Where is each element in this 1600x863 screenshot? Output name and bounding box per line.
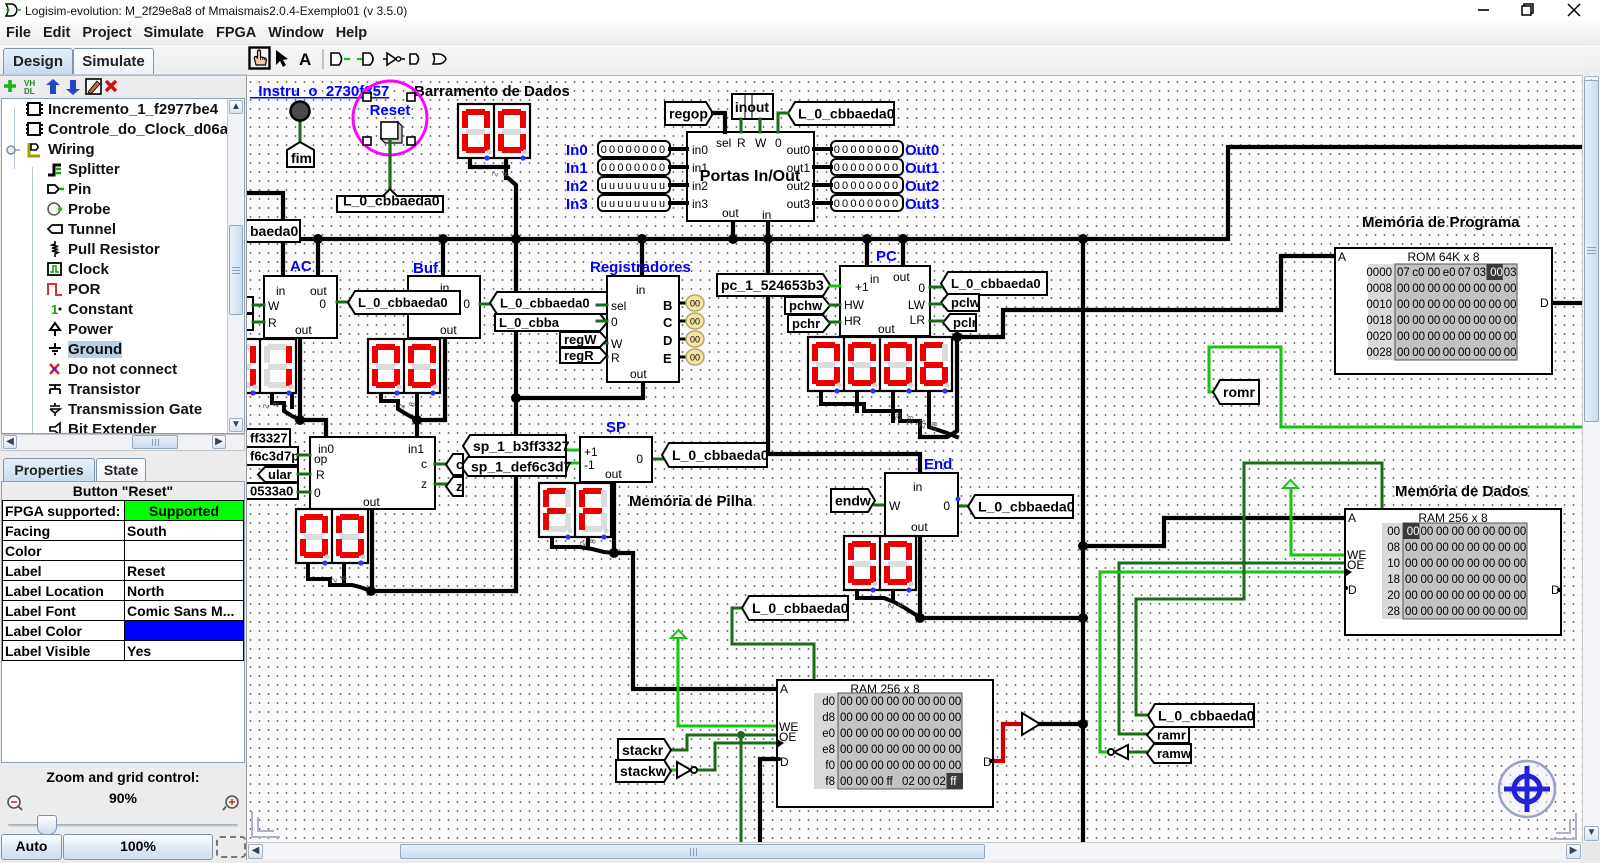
svg-text:out: out: [911, 520, 928, 534]
wire: PC display bundle riser: [920, 337, 957, 437]
svg-text:out: out: [878, 322, 895, 336]
tunnel regop/def6c3d7 (clipped, overlapping): [240, 447, 299, 465]
svg-text:e8: e8: [822, 744, 835, 756]
svg-text:00: 00: [918, 712, 931, 724]
svg-text:00: 00: [1452, 606, 1465, 618]
pin inout: [732, 94, 773, 119]
svg-text:pchr: pchr: [792, 316, 820, 331]
svg-text:DL: DL: [24, 87, 35, 96]
svg-text:0: 0: [918, 281, 925, 295]
svg-text:pchw: pchw: [789, 298, 823, 313]
svg-text:00: 00: [1412, 299, 1425, 311]
svg-text:out: out: [722, 206, 739, 220]
svg-text:00: 00: [690, 299, 700, 309]
tunnel L_0_cbbaeda0 (Buf out): [490, 292, 607, 314]
wire: AC display bundle: [272, 393, 300, 420]
svg-text:in3: in3: [692, 197, 708, 211]
svg-text:00: 00: [1467, 574, 1480, 586]
svg-text:00: 00: [918, 776, 931, 788]
wire: main data bus (Barramento de Dados): [247, 147, 1590, 239]
tunnel regR: [560, 348, 607, 363]
probe B (value oval): [679, 295, 704, 311]
wire: End display bundle: [857, 590, 920, 618]
wire: ROM D out to right: [1552, 301, 1590, 305]
svg-text:out0: out0: [787, 143, 811, 157]
svg-text:00: 00: [1436, 574, 1449, 586]
svg-text:00: 00: [887, 744, 900, 756]
svg-text:00: 00: [1452, 590, 1465, 602]
svg-text:out: out: [310, 284, 327, 298]
svg-text:In1: In1: [566, 160, 588, 177]
svg-text:Reset: Reset: [370, 102, 411, 119]
svg-text:00: 00: [1498, 590, 1511, 602]
svg-text:00: 00: [1405, 558, 1418, 570]
svg-text:00: 00: [1458, 299, 1471, 311]
wire: ALU z out: [435, 483, 446, 486]
wire: ALU display bundle: [308, 563, 371, 591]
pin In0 value row: [598, 141, 670, 157]
svg-text:00: 00: [1458, 315, 1471, 327]
svg-text:in: in: [276, 284, 285, 298]
tunnel endw: [831, 489, 875, 512]
svg-text:00: 00: [1483, 558, 1496, 570]
svg-text:00: 00: [1489, 299, 1502, 311]
wire: romr net (green): [1209, 347, 1590, 427]
svg-text:2: 2: [329, 577, 339, 583]
svg-text:out: out: [630, 367, 647, 381]
svg-text:In0: In0: [566, 142, 588, 159]
wire: pc tunnel to +1: [830, 285, 840, 288]
tunnel pchr: [788, 315, 830, 332]
svg-text:00: 00: [1452, 542, 1465, 554]
button Reset: [381, 122, 402, 143]
selection halo (magenta circle) around Reset button: [353, 81, 427, 155]
svg-text:Barramento de Dados: Barramento de Dados: [414, 83, 570, 100]
svg-text:00: 00: [871, 744, 884, 756]
svg-text:00: 00: [933, 696, 946, 708]
wire: Buf display bundle: [381, 393, 417, 420]
svg-text:0018: 0018: [1366, 315, 1392, 327]
svg-text:in: in: [762, 208, 771, 222]
svg-text:0: 0: [943, 499, 950, 513]
wire: ALU out to bus column: [372, 509, 516, 591]
svg-text:00: 00: [949, 712, 962, 724]
clipped tunnels at left edge: [247, 297, 253, 330]
svg-text:8: 8: [896, 601, 906, 607]
svg-text:L_0_cbbaeda0: L_0_cbbaeda0: [500, 296, 590, 311]
svg-text:00: 00: [918, 728, 931, 740]
wire: pclw stub: [930, 303, 941, 306]
svg-text:07: 07: [1458, 267, 1471, 279]
wire junction: [511, 234, 521, 244]
svg-text:HR: HR: [844, 314, 862, 328]
svg-text:L_0_cbbaeda0: L_0_cbbaeda0: [672, 447, 769, 463]
svg-text:00: 00: [1443, 283, 1456, 295]
svg-text:00: 00: [887, 696, 900, 708]
svg-text:1: 1: [51, 302, 58, 317]
svg-text:d8: d8: [822, 712, 835, 724]
probe C (value oval): [679, 313, 704, 329]
svg-text:00: 00: [1443, 331, 1456, 343]
clock pin triangle: [777, 739, 784, 748]
svg-text:00: 00: [1428, 267, 1441, 279]
tunnel pc_1_524653b3: [717, 274, 830, 296]
wire junction: [609, 548, 619, 558]
wire: tunnel to SP -1: [566, 462, 580, 465]
svg-text:L_0_cbbaeda0: L_0_cbbaeda0: [1158, 708, 1255, 724]
svg-text:00: 00: [871, 776, 884, 788]
svg-text:00: 00: [1412, 283, 1425, 295]
svg-text:00: 00: [1473, 315, 1486, 327]
svg-text:0: 0: [611, 315, 618, 329]
wire: Portas to Out0: [814, 147, 831, 151]
wire: ALU op stub: [298, 454, 310, 457]
svg-text:00000000: 00000000: [601, 162, 668, 174]
svg-text:00: 00: [1436, 558, 1449, 570]
svg-text:W: W: [268, 299, 280, 313]
svg-text:00: 00: [1407, 526, 1420, 538]
svg-text:out: out: [605, 467, 622, 481]
wire: buffer out to column: [1040, 722, 1083, 726]
tunnel L_0_cbbaeda0 (AC out): [348, 291, 460, 314]
wire junction: [511, 393, 521, 403]
svg-text:stackr: stackr: [622, 742, 664, 758]
wire: bus to Registradores in: [640, 239, 644, 276]
7-segment display SP value display: [539, 483, 611, 540]
svg-text:regR: regR: [564, 348, 594, 363]
svg-text:fim: fim: [291, 150, 312, 166]
svg-text:00: 00: [840, 760, 853, 772]
wire: Reset button to tunnel: [388, 140, 391, 189]
svg-text:00: 00: [1504, 299, 1517, 311]
svg-text:00: 00: [1483, 574, 1496, 586]
svg-text:00: 00: [1436, 590, 1449, 602]
svg-text:Memória de Dados: Memória de Dados: [1395, 483, 1528, 500]
svg-text:L_0_cbbaeda0: L_0_cbbaeda0: [752, 600, 849, 616]
svg-text:0: 0: [463, 297, 470, 311]
svg-text:00: 00: [840, 696, 853, 708]
svg-text:00: 00: [1489, 331, 1502, 343]
svg-text:00: 00: [856, 776, 869, 788]
svg-text:L_0_cbbaeda0: L_0_cbbaeda0: [343, 193, 440, 209]
subcircuit Buf: [408, 276, 480, 338]
svg-text:D: D: [1540, 296, 1549, 310]
svg-text:07: 07: [1397, 267, 1410, 279]
svg-text:L_0_cbba: L_0_cbba: [499, 315, 560, 330]
memory component RAM 256x8 (Memoria de Dados): [1345, 509, 1561, 635]
tunnel L_0_cbbaeda0 (clipped at left edge): [240, 220, 300, 242]
svg-text:00: 00: [1467, 526, 1480, 538]
svg-text:0020: 0020: [1366, 331, 1392, 343]
wire: stackr to stack RAM OE: [670, 735, 777, 750]
7-segment display AC register display: [224, 339, 296, 396]
svg-text:R: R: [316, 468, 325, 482]
wire junction: [637, 234, 647, 244]
wire: End out to right column: [920, 536, 1083, 618]
svg-text:f6c3d7p: f6c3d7p: [250, 449, 299, 464]
svg-text:00: 00: [1498, 606, 1511, 618]
wire: In1 to Portas: [670, 165, 687, 169]
wire: ALU c out: [435, 463, 446, 466]
svg-text:sel: sel: [716, 136, 731, 150]
7-segment display ALU result display: [296, 509, 368, 566]
wire: 0 stub: [597, 320, 607, 323]
svg-text:ff: ff: [887, 776, 894, 788]
svg-text:00: 00: [1428, 331, 1441, 343]
svg-text:02: 02: [933, 776, 946, 788]
subcircuit PC: [840, 266, 930, 336]
wire: SP display bundle: [552, 537, 614, 553]
svg-text:08: 08: [1387, 542, 1400, 554]
svg-text:e0: e0: [1443, 267, 1456, 279]
svg-text:00: 00: [1443, 299, 1456, 311]
svg-text:regop: regop: [669, 106, 708, 122]
wire: display to bundle: [470, 158, 508, 167]
svg-text:W: W: [889, 499, 901, 513]
svg-text:00: 00: [902, 744, 915, 756]
tunnel L_0_cbbaeda0 (End): [968, 495, 1075, 518]
svg-text:00: 00: [1428, 347, 1441, 359]
svg-text:c: c: [456, 457, 463, 472]
svg-text:00: 00: [918, 696, 931, 708]
svg-text:00: 00: [1452, 558, 1465, 570]
wire: bus to Buf in: [441, 239, 445, 276]
svg-text:0: 0: [636, 452, 643, 466]
wire: AC R stub: [253, 321, 264, 324]
tunnel L_0_cbbaeda0 (to Registradores): [495, 314, 607, 331]
wire junction: [952, 332, 962, 342]
svg-text:00: 00: [1436, 542, 1449, 554]
svg-text:pclr: pclr: [953, 315, 977, 330]
svg-text:20: 20: [1387, 590, 1400, 602]
svg-text:00: 00: [1504, 315, 1517, 327]
pin Out3 value row: [831, 195, 903, 211]
buffer gate (stack D out): [1022, 713, 1040, 735]
svg-text:00: 00: [1489, 283, 1502, 295]
wire: bus to AC out pin: [316, 239, 320, 276]
svg-text:00: 00: [1467, 558, 1480, 570]
tunnel stackr: [618, 739, 671, 761]
svg-text:baeda0: baeda0: [250, 223, 298, 239]
svg-text:out: out: [295, 323, 312, 337]
subcircuit AC: [264, 276, 337, 338]
svg-text:Out0: Out0: [905, 142, 939, 159]
svg-text:00: 00: [1467, 542, 1480, 554]
svg-text:Memória de Pilha: Memória de Pilha: [629, 493, 753, 510]
probe D (value oval): [679, 331, 704, 347]
svg-text:L_0_cbbaeda0: L_0_cbbaeda0: [978, 499, 1075, 515]
svg-text:00: 00: [840, 744, 853, 756]
svg-text:A: A: [299, 50, 311, 69]
svg-text:28: 28: [917, 418, 928, 429]
svg-text:E: E: [663, 351, 672, 366]
svg-text:f8: f8: [825, 776, 835, 788]
svg-text:00: 00: [887, 728, 900, 740]
wire: Portas to Out2: [814, 183, 831, 187]
svg-text:OE: OE: [1347, 558, 1364, 572]
wire: Portas to Out3: [814, 201, 831, 205]
svg-text:A: A: [780, 682, 788, 696]
svg-text:00: 00: [1421, 590, 1434, 602]
svg-text:sp_1_def6c3d7: sp_1_def6c3d7: [471, 459, 572, 475]
svg-text:00: 00: [1428, 315, 1441, 327]
wire: W stub: [597, 342, 607, 345]
svg-text:28: 28: [1387, 606, 1400, 618]
wire: inverter to ramw tunnel: [1128, 751, 1147, 754]
tunnel L_0_cbbaeda0 (Reset): [337, 189, 443, 212]
svg-text:02: 02: [902, 776, 915, 788]
svg-text:Out1: Out1: [905, 160, 939, 177]
svg-text:00: 00: [1458, 283, 1471, 295]
svg-text:00: 00: [690, 335, 700, 345]
svg-text:00: 00: [690, 353, 700, 363]
NOT gate (ramw inverter, mirrored): [1108, 745, 1128, 759]
probe E (value oval): [679, 349, 704, 365]
wire: SP out to stack RAM A: [614, 482, 777, 689]
svg-text:00: 00: [902, 728, 915, 740]
7-segment display End value display: [844, 536, 916, 593]
wire: SP 0 to tunnel: [652, 458, 662, 461]
svg-text:03: 03: [1504, 267, 1517, 279]
svg-text:inout: inout: [735, 99, 770, 115]
svg-text:sp_1_b3ff3327: sp_1_b3ff3327: [473, 438, 570, 454]
7-segment display PC value display: [808, 337, 952, 394]
svg-text:00: 00: [1405, 590, 1418, 602]
wire: Registradores out to bus column: [516, 382, 643, 398]
svg-text:00: 00: [1490, 267, 1503, 279]
svg-text:00: 00: [840, 712, 853, 724]
svg-text:00: 00: [1397, 283, 1410, 295]
wire: ramr to data RAM OE: [1119, 563, 1345, 734]
svg-text:00: 00: [871, 728, 884, 740]
svg-text:00: 00: [1443, 347, 1456, 359]
svg-text:Buf: Buf: [413, 260, 439, 277]
svg-text:00: 00: [1387, 526, 1400, 538]
svg-text:out: out: [363, 495, 380, 509]
RAM pin labels: [779, 682, 992, 769]
svg-text:out: out: [893, 270, 910, 284]
tunnel sp_1_b3ff3327 (clipped): [240, 429, 290, 447]
svg-text:stackw: stackw: [620, 763, 667, 779]
tunnel regop: [665, 102, 713, 125]
svg-text:00: 00: [1483, 542, 1496, 554]
wire: R stub: [597, 356, 607, 359]
tunnel z: [446, 477, 463, 496]
wire junction (green): [737, 731, 745, 739]
svg-text:18: 18: [1387, 574, 1400, 586]
svg-text:00: 00: [902, 712, 915, 724]
wire: bus display bundle down: [506, 158, 516, 591]
svg-text:W: W: [611, 337, 623, 351]
svg-text:00: 00: [1397, 299, 1410, 311]
svg-text:00: 00: [1483, 526, 1496, 538]
svg-text:+1: +1: [855, 280, 869, 294]
svg-text:00: 00: [1498, 542, 1511, 554]
svg-text:z: z: [456, 479, 463, 494]
svg-text:In2: In2: [566, 178, 588, 195]
svg-text:00: 00: [918, 760, 931, 772]
tunnel sp_1_b3ff3327: [463, 435, 570, 457]
svg-text:Out2: Out2: [905, 178, 939, 195]
memory component RAM 256x8 (Memoria de Pilha): [777, 680, 993, 807]
wire: Buf 0 out: [480, 303, 490, 306]
pin fim (output with probe ball): [287, 102, 314, 168]
svg-text:f0: f0: [825, 760, 835, 772]
wire: stack RAM D input from below: [760, 759, 777, 847]
svg-text:28: 28: [929, 420, 940, 431]
svg-text:-1: -1: [584, 458, 595, 472]
svg-text:00000000: 00000000: [834, 162, 901, 174]
svg-text:PC: PC: [876, 248, 897, 265]
wire: AC W stub: [253, 304, 264, 307]
wire: AC 0 out: [337, 301, 348, 304]
wire: inout W: [759, 119, 762, 132]
svg-text:00: 00: [1498, 558, 1511, 570]
wire: L_0 tunnel to data RAM top: [1136, 463, 1382, 715]
7-segment display bus value display: [458, 104, 530, 161]
svg-text:in: in: [636, 283, 645, 297]
svg-text:00: 00: [1514, 574, 1527, 586]
svg-text:C: C: [663, 315, 673, 330]
svg-text:00: 00: [856, 696, 869, 708]
wire: Buf out to ALU in1: [417, 338, 445, 437]
svg-text:End: End: [924, 456, 952, 473]
svg-text:00: 00: [1452, 526, 1465, 538]
wire: End 0 to tunnel: [958, 505, 968, 508]
svg-text:R: R: [268, 316, 277, 330]
svg-text:00: 00: [840, 776, 853, 788]
svg-text:00: 00: [887, 760, 900, 772]
svg-text:00000000: 00000000: [834, 180, 901, 192]
wire: data RAM clock line: [1100, 572, 1345, 752]
wire segment: [767, 452, 768, 456]
wire: PC display pin2: [855, 393, 859, 411]
wire junction: [1078, 234, 1088, 244]
svg-text:+1: +1: [584, 445, 598, 459]
memory component ROM 64Kx8 (Memoria de Programa): [1335, 248, 1552, 374]
svg-text:00: 00: [1489, 315, 1502, 327]
tunnel pc (clipped, overlapping): [240, 483, 298, 499]
wire junction: [763, 234, 773, 244]
svg-text:Memória de Programa: Memória de Programa: [1362, 214, 1520, 231]
tunnel stackw: [616, 760, 671, 782]
wire junction: [438, 234, 448, 244]
svg-text:0008: 0008: [1366, 283, 1392, 295]
svg-text:SP: SP: [606, 419, 626, 436]
svg-text:00: 00: [1467, 606, 1480, 618]
svg-text:ular: ular: [268, 467, 292, 482]
svg-text:z: z: [421, 477, 427, 491]
svg-text:L_0_cbbaeda0: L_0_cbbaeda0: [798, 106, 895, 122]
svg-text:00: 00: [1458, 347, 1471, 359]
wire: stackr branch down: [740, 735, 743, 847]
7-segment display Buf register display: [368, 339, 440, 396]
svg-text:0533a0: 0533a0: [250, 484, 293, 499]
wire: bus branch down right column: [1081, 239, 1085, 847]
svg-text:LR: LR: [910, 313, 926, 327]
svg-text:00: 00: [1436, 526, 1449, 538]
wire: tunnel to SP +1: [566, 449, 580, 452]
svg-text:00: 00: [1504, 331, 1517, 343]
RAM pin labels: [1347, 511, 1560, 597]
svg-text:00: 00: [1443, 315, 1456, 327]
tunnel sp_1_def6c3d7: [461, 457, 572, 476]
svg-text:00: 00: [1504, 283, 1517, 295]
wire: pclr stub: [930, 320, 943, 323]
svg-text:00000000: 00000000: [834, 198, 901, 210]
svg-text:00: 00: [1514, 542, 1527, 554]
pin In2 value row: [598, 177, 670, 193]
